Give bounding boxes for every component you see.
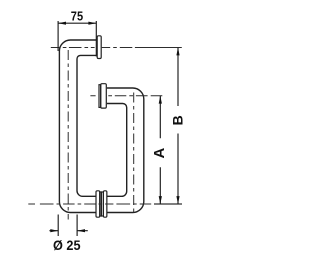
dim dia25 extension lines: [57, 215, 59, 237]
arrow A bottom: [159, 196, 162, 204]
centerline grip 2: [133, 93, 135, 216]
extension line bottom right (A/B arrows landing line): [154, 203, 182, 205]
svg-text:Ø 25: Ø 25: [53, 237, 81, 253]
arrow B top: [176, 48, 179, 56]
handle 2 bottom flange collar: [101, 192, 103, 216]
handle 2 top flange collar: [99, 85, 101, 108]
handle 1 inner contour: [77, 55, 97, 196]
handle 1 bottom flange plate: [96, 191, 100, 217]
arrow A top: [159, 96, 162, 104]
handle 1 top flange: [97, 36, 101, 59]
dim 75 extension line left: [57, 21, 59, 51]
svg-text:75: 75: [71, 9, 83, 24]
arrow B bottom: [176, 196, 179, 204]
handle 1 outer contour (top arm, top elbow, grip, bottom elbow, bottom arm): [59, 40, 97, 213]
dim B line: [177, 48, 179, 205]
handle 2 inner contour: [107, 104, 127, 197]
arrow dia25 right: [77, 229, 85, 232]
handle 2 outer contour: [107, 88, 144, 213]
dim dia25 stub lines: [49, 230, 87, 232]
svg-text:B: B: [169, 115, 185, 125]
arrow 75 left: [58, 22, 66, 25]
svg-text:A: A: [151, 148, 168, 159]
centerline grip 1: [67, 50, 69, 220]
centerline handle 2 top arm: [90, 95, 162, 97]
arrow 75 right: [88, 22, 96, 25]
handle 2 top flange plate: [101, 84, 107, 108]
arrow dia25 left: [50, 229, 58, 232]
dim A line: [159, 96, 161, 204]
centerline handle 1 top arm: [51, 47, 182, 49]
dim 75 line: [58, 22, 96, 24]
centerline bottom arm: [28, 203, 151, 205]
handle 1 bottom flange collar: [100, 192, 102, 216]
handle 2 bottom flange plate: [103, 191, 106, 217]
dim 75 extension line right: [95, 21, 97, 57]
